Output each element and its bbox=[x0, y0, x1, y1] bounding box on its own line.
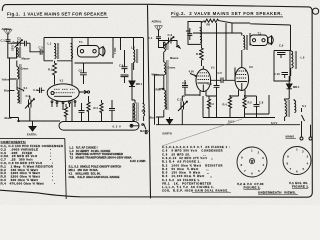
capacitor C9 F2 bbox=[274, 44, 290, 82]
switch S1 F2 bbox=[302, 104, 307, 121]
wire blue F1 bbox=[4, 89, 15, 93]
svg-text:7: 7 bbox=[290, 167, 292, 171]
svg-text:C.5: C.5 bbox=[218, 71, 223, 75]
svg-text:Green: Green bbox=[21, 66, 29, 70]
resistor R2 F1 bbox=[64, 104, 67, 122]
svg-text:R.6 10,000 Ohm ½ Watt ,,: R.6 10,000 Ohm ½ Watt ,, bbox=[162, 174, 212, 178]
middle list text bbox=[69, 145, 146, 178]
svg-text:R.4: R.4 bbox=[223, 103, 228, 107]
wire red F2 bbox=[156, 87, 164, 91]
rectifier MR1 F2 bbox=[287, 76, 300, 99]
corner curl top-right bbox=[0, 7, 312, 197]
capacitor C8 F1 bbox=[119, 50, 129, 83]
aerial F1 bbox=[2, 27, 13, 39]
svg-text:C.8: C.8 bbox=[259, 101, 264, 105]
resistor R4 F1 bbox=[87, 96, 98, 122]
top bus F1 bbox=[72, 37, 143, 39]
svg-text:5: 5 bbox=[303, 167, 305, 171]
top bus F2 bbox=[193, 24, 291, 33]
svg-text:L.1: L.1 bbox=[48, 42, 52, 46]
wave band switch arrow F1 bbox=[17, 86, 28, 92]
valve V2 F2 bbox=[235, 65, 253, 97]
variable capacitor C2 F1 bbox=[25, 94, 35, 121]
svg-text:UNDERNEATH VIEWS.: UNDERNEATH VIEWS. bbox=[258, 191, 296, 195]
coupling capacitor C5 F2 bbox=[211, 71, 235, 83]
capacitor C5 F1 bbox=[30, 43, 44, 55]
svg-text:S.1 S.2 AS FIGURE 1.: S.1 S.2 AS FIGURE 1. bbox=[162, 178, 201, 182]
svg-text:COIL R.E.P. HIGH GAIN DUAL R: COIL R.E.P. HIGH GAIN DUAL RANGE bbox=[69, 175, 120, 179]
capacitor C6 F1 bbox=[79, 103, 85, 122]
svg-text:6.3V. 2 AMP.: 6.3V. 2 AMP. bbox=[130, 159, 146, 163]
svg-text:White: White bbox=[152, 72, 160, 76]
svg-text:MR.1 250 Volt 50 MA.: MR.1 250 Volt 50 MA. bbox=[69, 168, 99, 172]
capacitor C10 F2 bbox=[274, 72, 288, 78]
svg-text:L.1,L.3, T.1 T.2 AS FIGURE 1.: L.1,L.3, T.1 T.2 AS FIGURE 1. bbox=[162, 185, 214, 189]
svg-text:Black: Black bbox=[5, 116, 13, 120]
resistor R3 F1 bbox=[100, 100, 103, 122]
svg-text:AERIAL: AERIAL bbox=[152, 20, 162, 24]
heater bus stadium F1 bbox=[59, 122, 139, 131]
svg-text:5: 5 bbox=[258, 169, 260, 173]
svg-text:MAINS: MAINS bbox=[140, 129, 149, 133]
svg-text:C.9,C.10 32 MFD 275 Volt ,,: C.9,C.10 32 MFD 275 Volt ,, bbox=[162, 156, 214, 160]
ground EARTH F2 bbox=[163, 117, 173, 136]
svg-text:R.3 50 Ohm ¼ Watt ,,: R.3 50 Ohm ¼ Watt ,, bbox=[162, 167, 209, 171]
crease diagonal bbox=[162, 119, 242, 146]
svg-text:MR.1: MR.1 bbox=[136, 82, 143, 86]
svg-text:Mauve: Mauve bbox=[22, 57, 31, 61]
wire white F2 bbox=[152, 72, 164, 124]
svg-text:C.1: C.1 bbox=[1, 39, 6, 43]
svg-text:CELL: CELL bbox=[113, 47, 117, 55]
vertical wires F2 bbox=[159, 33, 257, 125]
capacitor C1 F1 bbox=[1, 39, 11, 48]
svg-text:2: 2 bbox=[258, 151, 260, 155]
svg-text:MAINS: MAINS bbox=[286, 135, 295, 139]
svg-text:R.2 1000 Ohm ¼ Watt RESIST: R.2 1000 Ohm ¼ Watt RESISTOR bbox=[162, 163, 223, 167]
valve V1 F1 bbox=[47, 79, 89, 102]
wire blue F2 bbox=[150, 110, 164, 120]
wire right bus F1 bbox=[143, 38, 144, 104]
AF choke box L4 F2 bbox=[186, 22, 202, 45]
svg-text:L 0.03: L 0.03 bbox=[11, 43, 15, 51]
svg-text:T.1: T.1 bbox=[79, 40, 83, 44]
wire black F1 bbox=[5, 116, 20, 122]
svg-text:6: 6 bbox=[296, 170, 298, 174]
svg-text:MR.1: MR.1 bbox=[293, 85, 300, 89]
valve base V2V3 dial bbox=[237, 147, 267, 177]
title Fig 1 bbox=[7, 12, 108, 18]
resistor R1 F1 bbox=[48, 61, 57, 81]
mains transformer T2 F1 bbox=[133, 100, 145, 126]
svg-text:S.1, S.2 SINGLE POLE ON/OFF S: S.1, S.2 SINGLE POLE ON/OFF SWITCH bbox=[69, 165, 122, 169]
svg-text:C2: C2 bbox=[79, 68, 83, 72]
aerial F2 bbox=[152, 20, 163, 37]
svg-text:3: 3 bbox=[262, 156, 264, 160]
svg-text:Blue: Blue bbox=[4, 89, 10, 93]
svg-text:C.1: C.1 bbox=[148, 36, 153, 40]
svg-text:C3: C3 bbox=[17, 36, 21, 40]
svg-text:V.2: V.2 bbox=[249, 65, 253, 69]
svg-text:FIGURE 1.: FIGURE 1. bbox=[292, 185, 309, 189]
capacitor C8b F1 bbox=[109, 100, 115, 122]
valve V1 pins F1 bbox=[51, 101, 76, 110]
svg-text:•: • bbox=[54, 181, 55, 185]
resistor R5 F2 bbox=[243, 95, 252, 118]
svg-text:C.2: C.2 bbox=[177, 97, 182, 101]
variable capacitor C2 F2 bbox=[177, 96, 188, 125]
dial labels bbox=[237, 181, 309, 195]
choke L6 F2 bbox=[291, 25, 305, 76]
valve V1 F2 bbox=[196, 66, 215, 97]
speaker T1 F1 bbox=[78, 38, 106, 58]
resistor R4 F2 bbox=[223, 95, 232, 118]
svg-text:FIGURE 2.: FIGURE 2. bbox=[244, 186, 261, 190]
svg-text:T.2 MAINS TRANSFORMER 250V-0: T.2 MAINS TRANSFORMER 250V-0-250V 60MA bbox=[70, 155, 132, 159]
svg-text:Green: Green bbox=[168, 66, 176, 70]
svg-text:Fig.2. 2 VALVE MAINS SET FOR: Fig.2. 2 VALVE MAINS SET FOR SPEAKER. bbox=[171, 11, 283, 16]
bus 2 F2 bbox=[156, 124, 300, 126]
border frame bbox=[2, 4, 309, 10]
svg-text:1: 1 bbox=[251, 149, 253, 153]
mains transformer T2 F2 bbox=[285, 99, 296, 121]
variable capacitor C3 F1 bbox=[8, 36, 25, 47]
svg-text:4: 4 bbox=[307, 162, 309, 166]
svg-text:C.10: C.10 bbox=[274, 72, 280, 76]
svg-text:R.1 R.4 AS FIGURE 1.: R.1 R.4 AS FIGURE 1. bbox=[162, 160, 201, 164]
wire V2 secondary F2 bbox=[245, 95, 269, 114]
svg-text:R.5: R.5 bbox=[248, 101, 253, 105]
svg-text:8: 8 bbox=[241, 163, 243, 167]
svg-text:S.1: S.1 bbox=[24, 86, 29, 90]
rectifier MR1 F1 bbox=[129, 63, 143, 100]
svg-text:Blue: Blue bbox=[150, 116, 156, 120]
svg-text:7: 7 bbox=[244, 169, 246, 173]
resistor R1 F2 bbox=[196, 45, 203, 66]
ground EARTH F1 bbox=[27, 121, 37, 137]
svg-text:C.3: C.3 bbox=[168, 33, 173, 37]
capacitor C7 F1 bbox=[72, 61, 113, 122]
svg-text:R6: R6 bbox=[207, 23, 211, 27]
svg-text:C.5: C.5 bbox=[39, 45, 44, 49]
svg-text:V.1: V.1 bbox=[211, 66, 215, 70]
svg-text:R.4 470,000 Ohm ½ Watt: R.4 470,000 Ohm ½ Watt bbox=[1, 181, 44, 185]
svg-text:4.5V: 4.5V bbox=[189, 70, 195, 74]
capacitor C4 F1 bbox=[33, 88, 44, 94]
svg-text:Fig.1. 1 VALVE MAINS SET FOR: Fig.1. 1 VALVE MAINS SET FOR SPEAKER bbox=[7, 12, 108, 17]
svg-text:C.9: C.9 bbox=[279, 44, 284, 48]
svg-text:L.6: L.6 bbox=[301, 56, 305, 60]
svg-text:EARTH: EARTH bbox=[163, 132, 172, 136]
svg-text:9: 9 bbox=[241, 156, 243, 160]
divider between Fig1 and Fig2 bbox=[148, 6, 151, 199]
svg-text:2: 2 bbox=[302, 150, 304, 154]
capacitor C4a F1 top bbox=[25, 41, 31, 46]
capacitor C4 F2 bbox=[182, 80, 188, 95]
svg-text:S.1: S.1 bbox=[302, 104, 307, 108]
svg-text:S.1: S.1 bbox=[142, 109, 147, 113]
svg-text:C.4: C.4 bbox=[182, 81, 187, 85]
svg-text:6.3 V: 6.3 V bbox=[113, 124, 122, 128]
switch S1 F1 and mains terminals bbox=[140, 109, 149, 134]
svg-text:4: 4 bbox=[263, 163, 265, 167]
right list text bbox=[162, 145, 231, 193]
capacitor C8 F2 bbox=[254, 96, 264, 118]
components rule left bbox=[0, 138, 65, 140]
left list text bbox=[1, 144, 64, 185]
svg-text:V.1: V.1 bbox=[60, 79, 64, 83]
terminals MAINS F2 bbox=[286, 121, 313, 140]
svg-text:C.6: C.6 bbox=[208, 82, 213, 86]
svg-text:Mauve: Mauve bbox=[170, 56, 179, 60]
svg-text:9: 9 bbox=[287, 155, 289, 159]
svg-text:EARTH.: EARTH. bbox=[27, 133, 37, 137]
svg-text:V.1 MULLARD ECL 80.: V.1 MULLARD ECL 80. bbox=[69, 171, 101, 175]
wire CELL C8 branch F1 bbox=[113, 38, 121, 59]
svg-text:COIL R.E.P. HIGH GAIN DUAL RA: COIL R.E.P. HIGH GAIN DUAL RANGE. bbox=[162, 189, 229, 193]
transformer L1 box F1 bbox=[44, 38, 73, 61]
capacitor C1 F2 bbox=[148, 36, 161, 42]
bus 1 F2 bbox=[203, 117, 275, 119]
vertical wires top F2 bbox=[217, 23, 233, 63]
valve base V1 dial bbox=[283, 147, 311, 175]
svg-text:C.1,C.2,C.3,C.4 C.5 C.7 AS FI: C.1,C.2,C.3,C.4 C.5 C.7 AS FIGURE 1 : bbox=[162, 145, 230, 149]
resistor R3 F2 bbox=[207, 96, 214, 118]
title Fig 2 bbox=[171, 11, 283, 17]
svg-text:L.5: L.5 bbox=[268, 41, 272, 45]
transformer T1 F2 bbox=[242, 32, 262, 65]
choke L2 F1 bbox=[131, 38, 138, 71]
svg-text:6: 6 bbox=[251, 172, 253, 176]
svg-text:R.5 150 Ohm ½ Watt ,,: R.5 150 Ohm ½ Watt ,, bbox=[162, 171, 210, 175]
tuning coil F2 bbox=[159, 42, 179, 110]
svg-text:3: 3 bbox=[307, 155, 309, 159]
svg-text:6.3 V: 6.3 V bbox=[271, 121, 277, 125]
4.5V arrow F2 bbox=[189, 70, 197, 77]
svg-text:1: 1 bbox=[296, 148, 298, 152]
variable capacitor C3 F2 bbox=[159, 33, 181, 48]
svg-text:R.4: R.4 bbox=[94, 106, 99, 110]
tuning coil F1 (dual range) bbox=[8, 43, 31, 104]
speaker F2 bbox=[250, 35, 273, 46]
bottom bus F1 bbox=[19, 120, 61, 122]
capacitor C6 F2 bbox=[208, 80, 220, 95]
svg-text:VR.1 1K. POTENTIOMETER: VR.1 1K. POTENTIOMETER bbox=[162, 181, 212, 185]
svg-text:8: 8 bbox=[287, 162, 289, 166]
wire yellow tap F1 bbox=[2, 58, 17, 118]
components header bbox=[1, 140, 27, 144]
svg-text:R.1: R.1 bbox=[48, 68, 53, 72]
svg-text:C.8 25 MFD 25. ,,: C.8 25 MFD 25. ,, bbox=[162, 152, 206, 156]
svg-text:C.6 8 MFD 350 Volt CONDENS: C.6 8 MFD 350 Volt CONDENSER bbox=[162, 149, 223, 153]
resistor R6 F2 top horizontal bbox=[201, 19, 250, 27]
svg-text:Red: Red bbox=[156, 87, 161, 91]
svg-text:C.4: C.4 bbox=[33, 88, 38, 92]
divider left list bbox=[65, 139, 66, 199]
svg-text:L.1 R.F. AF CHOKE !: L.1 R.F. AF CHOKE ! bbox=[70, 145, 98, 149]
